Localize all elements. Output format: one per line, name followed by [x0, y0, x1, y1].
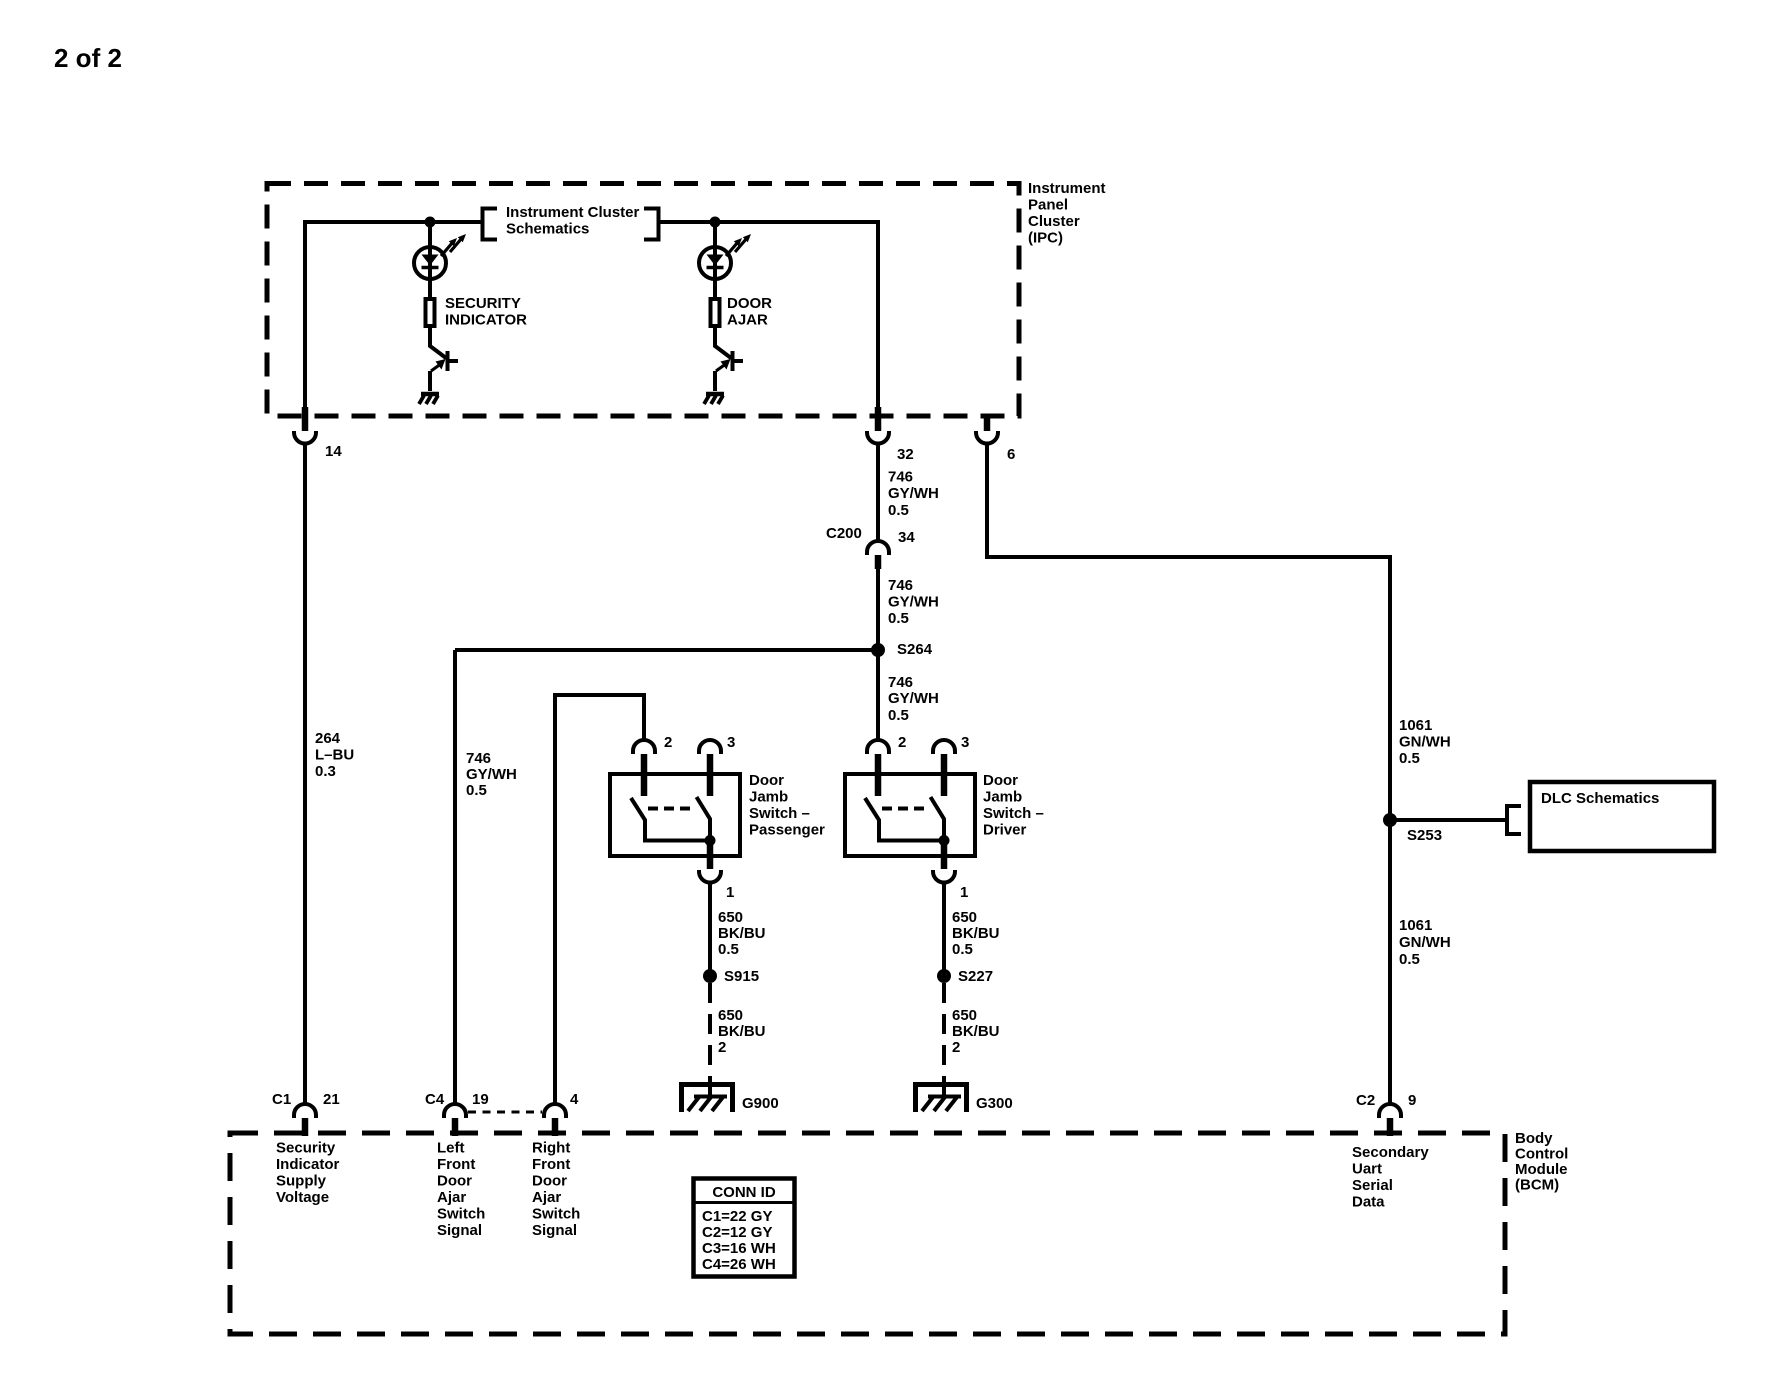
- connector C200 pin 34: [867, 541, 889, 555]
- label S227: [958, 968, 993, 985]
- svg-text:4: 4: [570, 1091, 579, 1108]
- wire label 746 GY/WH 0.5 mid: [888, 577, 939, 627]
- svg-text:INDICATOR: INDICATOR: [445, 312, 527, 329]
- resistor DOOR AJAR: [711, 299, 720, 326]
- svg-text:L–BU: L–BU: [315, 747, 354, 764]
- label S253: [1407, 827, 1442, 844]
- svg-text:Instrument Cluster: Instrument Cluster: [506, 204, 640, 221]
- wire right front door branch: [555, 695, 644, 1105]
- driver switch pin 1 connector: [933, 870, 955, 883]
- driver switch mechanical link dashed: [882, 807, 927, 811]
- junction S915: [703, 969, 717, 983]
- connector pin 6: [976, 431, 998, 444]
- svg-text:C4=26 WH: C4=26 WH: [702, 1256, 776, 1273]
- pin label 2 driver: [898, 734, 906, 751]
- connector C2 pin 9: [1379, 1104, 1401, 1118]
- svg-text:650: 650: [952, 1007, 977, 1024]
- passenger switch mechanical link dashed: [648, 807, 693, 811]
- connector pin 14: [294, 431, 316, 444]
- svg-text:Control: Control: [1515, 1146, 1568, 1163]
- IPC box label Instrument Panel Cluster (IPC): [1028, 180, 1106, 247]
- pin label 9: [1408, 1092, 1416, 1109]
- transistor driver door ajar: [715, 328, 743, 391]
- pin label 2 passenger: [664, 734, 672, 751]
- svg-text:Left: Left: [437, 1140, 465, 1157]
- svg-text:Front: Front: [437, 1156, 475, 1173]
- label Secondary Uart Serial Data: [1352, 1144, 1429, 1211]
- wire label 746 GY/WH 0.5 left: [466, 750, 517, 799]
- svg-text:2: 2: [952, 1039, 960, 1056]
- svg-text:S227: S227: [958, 968, 993, 985]
- ground IPC door ajar: [704, 394, 724, 404]
- wire label 746 GY/WH 0.5 upper: [888, 469, 939, 520]
- svg-text:Cluster: Cluster: [1028, 213, 1080, 230]
- svg-text:Door: Door: [532, 1173, 567, 1190]
- pin label 32: [897, 446, 914, 463]
- svg-text:Indicator: Indicator: [276, 1156, 340, 1173]
- wire dashed 650 BK/BU 2 passenger: [708, 983, 712, 1081]
- connector C4 pin 19: [444, 1104, 466, 1118]
- label C2: [1356, 1092, 1375, 1109]
- svg-text:GY/WH: GY/WH: [466, 766, 517, 783]
- wire 264 L-BU from pin 14 to BCM C1: [303, 444, 307, 1105]
- svg-text:DOOR: DOOR: [727, 295, 772, 312]
- svg-text:2 of 2: 2 of 2: [54, 43, 122, 73]
- svg-text:6: 6: [1007, 446, 1015, 463]
- svg-text:Panel: Panel: [1028, 197, 1068, 214]
- svg-text:Door: Door: [437, 1173, 472, 1190]
- svg-text:1061: 1061: [1399, 917, 1432, 934]
- svg-text:0.5: 0.5: [718, 941, 739, 958]
- driver pin 1 stub: [941, 840, 948, 869]
- svg-text:1: 1: [960, 884, 968, 901]
- pin label 34: [898, 529, 915, 546]
- wire top bus right segment: [659, 220, 878, 224]
- svg-text:Signal: Signal: [437, 1222, 482, 1239]
- svg-text:746: 746: [466, 750, 491, 767]
- svg-text:Signal: Signal: [532, 1222, 577, 1239]
- pin label 21: [323, 1091, 340, 1108]
- label S915: [724, 968, 759, 985]
- driver switch common node: [939, 835, 950, 846]
- label Security Indicator Supply Voltage: [276, 1140, 340, 1207]
- connector C1 pin 21: [294, 1104, 316, 1118]
- switch Door Jamb Switch Driver box: [845, 774, 975, 856]
- svg-text:2: 2: [718, 1039, 726, 1056]
- svg-text:Switch –: Switch –: [983, 805, 1044, 822]
- wire top bus left segment: [303, 220, 482, 224]
- svg-text:0.5: 0.5: [888, 610, 909, 627]
- wire 746 GY/WH C200 to S264: [876, 569, 880, 650]
- svg-text:GY/WH: GY/WH: [888, 690, 939, 707]
- label CONN ID header: [712, 1184, 776, 1201]
- label C1: [272, 1091, 291, 1108]
- svg-text:BK/BU: BK/BU: [952, 1023, 1000, 1040]
- wire 746 GY/WH S264 to driver switch: [876, 650, 880, 742]
- wire label 1061 GN/WH 0.5 upper: [1399, 717, 1451, 767]
- svg-text:1061: 1061: [1399, 717, 1432, 734]
- svg-text:746: 746: [888, 469, 913, 486]
- pin label 19: [472, 1091, 489, 1108]
- dashed link C4-19 to 4: [468, 1111, 542, 1114]
- wire label 650 BK/BU 0.5 driver: [952, 909, 1000, 958]
- svg-text:GY/WH: GY/WH: [888, 485, 939, 502]
- svg-text:34: 34: [898, 529, 915, 546]
- Instrument Panel Cluster (IPC) dashed box: [267, 184, 1019, 417]
- pin label 6: [1007, 446, 1015, 463]
- svg-text:Door: Door: [749, 772, 784, 789]
- svg-text:0.5: 0.5: [1399, 750, 1420, 767]
- label C4: [425, 1091, 445, 1108]
- svg-text:Passenger: Passenger: [749, 822, 825, 839]
- svg-text:Ajar: Ajar: [437, 1189, 466, 1206]
- svg-text:0.5: 0.5: [888, 707, 909, 724]
- svg-text:Data: Data: [1352, 1194, 1385, 1211]
- switch Door Jamb Switch Passenger box: [610, 774, 740, 856]
- connector pin 32 stub: [875, 407, 882, 431]
- svg-text:AJAR: AJAR: [727, 312, 768, 329]
- svg-text:CONN ID: CONN ID: [712, 1184, 776, 1201]
- label Right Front Door Ajar Switch Signal: [532, 1140, 580, 1240]
- svg-text:0.5: 0.5: [466, 782, 487, 799]
- BCM box label Body Control Module (BCM): [1515, 1130, 1568, 1194]
- resistor SECURITY INDICATOR: [426, 299, 435, 326]
- svg-text:(IPC): (IPC): [1028, 230, 1063, 247]
- connector pin 4 stub: [552, 1118, 559, 1136]
- wire label 650 BK/BU 0.5 passenger: [718, 909, 766, 958]
- svg-text:2: 2: [898, 734, 906, 751]
- svg-text:32: 32: [897, 446, 914, 463]
- label C200: [826, 525, 862, 542]
- label G900: [742, 1095, 779, 1112]
- svg-text:Driver: Driver: [983, 822, 1027, 839]
- svg-text:GY/WH: GY/WH: [888, 594, 939, 611]
- page number 2 of 2: [54, 43, 122, 73]
- wire label 746 GY/WH 0.5 lower: [888, 674, 939, 724]
- svg-text:Door: Door: [983, 772, 1018, 789]
- driver pin 2 stub: [875, 754, 882, 796]
- connector C2 stub: [1387, 1118, 1394, 1136]
- svg-text:BK/BU: BK/BU: [718, 925, 766, 942]
- svg-text:Serial: Serial: [1352, 1177, 1393, 1194]
- svg-text:Secondary: Secondary: [1352, 1144, 1429, 1161]
- connector C4 stub: [452, 1118, 459, 1136]
- svg-text:9: 9: [1408, 1092, 1416, 1109]
- svg-text:BK/BU: BK/BU: [952, 925, 1000, 942]
- svg-text:14: 14: [325, 443, 342, 460]
- passenger switch common node: [705, 835, 716, 846]
- svg-text:0.3: 0.3: [315, 763, 336, 780]
- svg-text:650: 650: [718, 909, 743, 926]
- passenger pin 1 stub: [707, 840, 714, 869]
- passenger switch right blade: [697, 797, 711, 841]
- svg-text:1: 1: [726, 884, 734, 901]
- wire IPC left vertical to pin 14: [303, 220, 307, 416]
- wire label 650 BK/BU 2 driver: [952, 1007, 1000, 1056]
- svg-text:3: 3: [961, 734, 969, 751]
- svg-text:C4: C4: [425, 1091, 445, 1108]
- svg-text:Front: Front: [532, 1156, 570, 1173]
- passenger switch pin 2 connector: [633, 740, 655, 754]
- bracket left of Instrument Cluster Schematics: [483, 209, 498, 240]
- pin label 14: [325, 443, 342, 460]
- svg-text:Supply: Supply: [276, 1173, 327, 1190]
- label DOOR AJAR: [727, 295, 772, 329]
- driver switch pin 3 connector: [933, 740, 955, 754]
- label Instrument Cluster Schematics: [506, 204, 640, 238]
- svg-text:Right: Right: [532, 1140, 570, 1157]
- connector pin 32: [867, 431, 889, 444]
- svg-text:Jamb: Jamb: [749, 789, 788, 806]
- label S264: [897, 641, 933, 658]
- wire LED1 drop: [428, 222, 432, 299]
- svg-text:Security: Security: [276, 1140, 336, 1157]
- wire pin 6 to right riser: [987, 444, 1390, 1105]
- connector pin 4: [544, 1104, 566, 1118]
- wire branch S264 to left: [455, 648, 878, 652]
- svg-text:19: 19: [472, 1091, 489, 1108]
- junction S253: [1383, 813, 1397, 827]
- passenger switch pin 1 connector: [699, 870, 721, 883]
- svg-text:C1=22 GY: C1=22 GY: [702, 1208, 772, 1225]
- pin label 1 passenger: [726, 884, 734, 901]
- svg-text:0.5: 0.5: [952, 941, 973, 958]
- svg-text:Instrument: Instrument: [1028, 180, 1106, 197]
- label Door Jamb Switch Driver: [983, 772, 1044, 839]
- driver switch left blade: [865, 798, 944, 841]
- svg-text:Switch: Switch: [437, 1206, 485, 1223]
- pin label 4: [570, 1091, 579, 1108]
- wire dashed 650 BK/BU 2 driver: [942, 983, 946, 1081]
- connector pin 14 stub: [302, 407, 309, 431]
- label G300: [976, 1095, 1013, 1112]
- svg-text:GN/WH: GN/WH: [1399, 934, 1451, 951]
- svg-text:264: 264: [315, 730, 341, 747]
- ground G900: [679, 1080, 735, 1112]
- svg-text:(BCM): (BCM): [1515, 1177, 1559, 1194]
- wire left branch down to C4 pin 19: [453, 650, 457, 1105]
- svg-text:Ajar: Ajar: [532, 1189, 561, 1206]
- label Door Jamb Switch Passenger: [749, 772, 825, 839]
- label CONN ID rows: [702, 1208, 776, 1273]
- passenger switch left blade: [631, 798, 710, 841]
- wire S253 to DLC: [1390, 818, 1507, 822]
- svg-text:0.5: 0.5: [888, 502, 909, 519]
- Body Control Module (BCM) dashed box: [230, 1133, 1505, 1334]
- wire 650 BK/BU driver: [942, 883, 946, 970]
- passenger switch pin 3 connector: [699, 740, 721, 754]
- svg-text:S915: S915: [724, 968, 759, 985]
- svg-text:0.5: 0.5: [1399, 951, 1420, 968]
- node junction LED1 tap: [425, 217, 436, 228]
- svg-text:Uart: Uart: [1352, 1161, 1382, 1178]
- svg-text:650: 650: [952, 909, 977, 926]
- svg-text:C3=16 WH: C3=16 WH: [702, 1240, 776, 1257]
- svg-text:G900: G900: [742, 1095, 779, 1112]
- driver switch pin 2 connector: [867, 740, 889, 754]
- pin label 3 driver: [961, 734, 969, 751]
- svg-text:C2: C2: [1356, 1092, 1375, 1109]
- pin label 3 passenger: [727, 734, 735, 751]
- LED security indicator: [414, 234, 466, 279]
- junction S227: [937, 969, 951, 983]
- svg-text:746: 746: [888, 577, 913, 594]
- bracket DLC link: [1507, 806, 1521, 834]
- transistor driver security indicator: [430, 328, 458, 391]
- connector pin 6 stub: [984, 414, 991, 431]
- svg-text:3: 3: [727, 734, 735, 751]
- svg-text:C200: C200: [826, 525, 862, 542]
- svg-text:746: 746: [888, 674, 913, 691]
- wire label 264 L-BU 0.3: [315, 730, 354, 780]
- svg-text:S253: S253: [1407, 827, 1442, 844]
- label SECURITY INDICATOR: [445, 295, 527, 329]
- label DLC Schematics: [1541, 790, 1659, 807]
- svg-text:C1: C1: [272, 1091, 291, 1108]
- svg-text:BK/BU: BK/BU: [718, 1023, 766, 1040]
- svg-text:C2=12 GY: C2=12 GY: [702, 1224, 772, 1241]
- svg-text:650: 650: [718, 1007, 743, 1024]
- label Left Front Door Ajar Switch Signal: [437, 1140, 485, 1240]
- wire 650 BK/BU passenger: [708, 883, 712, 970]
- node junction LED2 tap: [710, 217, 721, 228]
- svg-text:DLC Schematics: DLC Schematics: [1541, 790, 1659, 807]
- ground G300: [913, 1080, 969, 1112]
- wire LED2 drop: [713, 222, 717, 299]
- svg-text:Module: Module: [1515, 1161, 1568, 1178]
- svg-text:21: 21: [323, 1091, 340, 1108]
- svg-text:Voltage: Voltage: [276, 1189, 329, 1206]
- svg-text:Body: Body: [1515, 1130, 1553, 1147]
- passenger pin 3 stub: [707, 754, 714, 796]
- svg-text:SECURITY: SECURITY: [445, 295, 521, 312]
- svg-text:2: 2: [664, 734, 672, 751]
- svg-text:Switch –: Switch –: [749, 805, 810, 822]
- svg-text:Jamb: Jamb: [983, 789, 1022, 806]
- wire label 650 BK/BU 2 passenger: [718, 1007, 766, 1056]
- passenger pin 2 stub: [641, 754, 648, 796]
- junction S264: [871, 643, 885, 657]
- LED door ajar: [699, 234, 751, 279]
- svg-text:Switch: Switch: [532, 1206, 580, 1223]
- pin label 1 driver: [960, 884, 968, 901]
- bracket right of Instrument Cluster Schematics: [644, 209, 659, 240]
- connector C1 stub: [302, 1118, 309, 1136]
- driver pin 3 stub: [941, 754, 948, 796]
- svg-text:G300: G300: [976, 1095, 1013, 1112]
- driver switch right blade: [931, 797, 945, 841]
- svg-text:S264: S264: [897, 641, 933, 658]
- box DLC Schematics: [1530, 782, 1714, 851]
- CONN ID table: [694, 1179, 795, 1277]
- wire IPC right vertical to pin 32: [876, 220, 880, 416]
- wire 746 GY/WH pin 32 to C200: [876, 444, 880, 542]
- ground IPC security indicator: [419, 394, 439, 404]
- wire label 1061 GN/WH 0.5 lower: [1399, 917, 1451, 968]
- svg-text:Schematics: Schematics: [506, 221, 589, 238]
- connector C200 stub: [875, 555, 882, 569]
- svg-text:GN/WH: GN/WH: [1399, 734, 1451, 751]
